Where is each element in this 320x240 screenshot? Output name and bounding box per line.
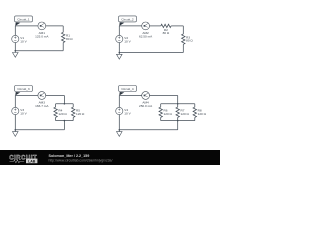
ammeter AM4 needle: [144, 93, 148, 95]
svg-text:120 Ω: 120 Ω: [164, 112, 173, 116]
voltage source V4 body: [116, 107, 123, 114]
footer background bar: [0, 150, 220, 165]
ammeter AM1 pivot blob: [40, 25, 42, 27]
node label box Circuit_3: [15, 86, 33, 92]
svg-text:120 Ω: 120 Ω: [76, 112, 85, 116]
svg-text:Circuit_3: Circuit_3: [17, 87, 29, 91]
CircuitLab logo LAB box: [26, 159, 37, 164]
wire C1 top-right segment: [46, 25, 64, 27]
ammeter AM2 needle: [144, 24, 148, 26]
wire C1 bottom segment: [15, 50, 63, 52]
schematic background: [0, 0, 220, 165]
wire C3 top segment 2: [46, 95, 65, 97]
voltage source V2 body: [116, 35, 123, 42]
resistor R8 zigzag: [193, 107, 196, 117]
ammeter AM1 body: [38, 22, 46, 30]
ground symbol: [13, 132, 19, 137]
voltage source V4 plus sign: [118, 109, 120, 111]
ammeter AM2 body: [142, 22, 150, 30]
ground stub: [14, 130, 16, 132]
voltage source V4 minus sign: [118, 112, 120, 114]
wire C2 top segment 2: [150, 25, 161, 27]
ammeter AM4 lower tick: [144, 95, 147, 97]
wire C1 right-bottom vertical: [62, 43, 64, 51]
wire C4 feed down 2: [177, 121, 179, 130]
wire C3 feed down: [63, 96, 65, 104]
node label box Circuit_2: [119, 16, 137, 22]
junction C3 top rail: [64, 103, 66, 105]
ammeter AM4 body: [142, 92, 150, 100]
node flag pointer (Circuit_3): [15, 92, 20, 96]
wire C2 bottom segment: [119, 52, 183, 54]
ammeter AM2 lower tick: [144, 26, 147, 28]
wire C1 left-bottom vertical: [14, 43, 16, 51]
wire C3 top rail: [56, 103, 74, 105]
ground symbol: [117, 54, 123, 59]
ammeter AM3 needle: [41, 93, 45, 95]
wire C3 R4 top lead: [55, 104, 57, 107]
ammeter AM1 needle: [41, 24, 45, 26]
wire C4 R7 bottom lead: [177, 117, 179, 120]
voltage source V3 plus sign: [14, 109, 16, 111]
svg-text:10 V: 10 V: [124, 112, 131, 116]
wire C3 feed down 2: [63, 121, 65, 130]
wire C1 top-left segment: [15, 25, 38, 27]
resistor R6 zigzag: [159, 107, 162, 117]
ammeter AM1 lower tick: [41, 26, 44, 28]
junction C3 bottom rail: [64, 120, 66, 122]
wire C3 bottom rail: [56, 120, 74, 122]
wire C4 R7 top lead: [177, 104, 179, 107]
ground stub: [118, 53, 120, 55]
CircuitLab logo wire squiggle: [10, 160, 25, 163]
resistor R5 zigzag: [72, 107, 75, 117]
svg-text:80 Ω: 80 Ω: [66, 37, 73, 41]
junction C2 ground node: [119, 52, 121, 54]
resistor R1 zigzag: [62, 32, 65, 42]
svg-text:Circuit_1: Circuit_1: [17, 17, 29, 21]
ground stub: [14, 51, 16, 53]
wire C4 R6 bottom lead: [160, 117, 162, 120]
svg-text:Solomon_Mer / 2.2_159: Solomon_Mer / 2.2_159: [49, 154, 90, 158]
wire C4 feed down: [177, 96, 179, 104]
resistor R2 zigzag: [161, 24, 171, 27]
wire C3 R5 bottom lead: [72, 117, 74, 120]
wire C3 left-top vertical: [14, 96, 16, 108]
voltage source V2 plus sign: [118, 37, 120, 39]
svg-text:120 Ω: 120 Ω: [198, 112, 207, 116]
voltage source V1 body: [12, 35, 19, 42]
node label box Circuit_4: [119, 86, 137, 92]
wire C4 top segment 1: [119, 95, 141, 97]
voltage source V1 minus sign: [14, 40, 16, 42]
wire C4 bottom segment: [119, 129, 177, 131]
wire C4 R8 bottom lead: [194, 117, 196, 120]
wire C4 left-top vertical: [118, 96, 120, 108]
junction C4 bottom rail: [177, 120, 179, 122]
node flag pointer (Circuit_2): [119, 22, 124, 26]
svg-text:10 V: 10 V: [20, 40, 27, 44]
node flag pointer (Circuit_4): [119, 92, 124, 96]
wire C4 top segment 2: [150, 95, 178, 97]
ammeter AM4 pivot blob: [144, 95, 146, 97]
svg-text:166.7 mA: 166.7 mA: [35, 104, 49, 108]
ground symbol: [13, 53, 19, 58]
wire C4 bottom rail: [161, 120, 195, 122]
svg-text:80 Ω: 80 Ω: [186, 39, 193, 43]
svg-text:120 Ω: 120 Ω: [58, 112, 67, 116]
voltage source V3 body: [12, 107, 19, 114]
wire C3 bottom segment: [15, 129, 64, 131]
svg-text:125.0 mA: 125.0 mA: [35, 34, 49, 38]
ammeter AM3 body: [38, 92, 46, 100]
wire C2 left-top vertical: [118, 26, 120, 36]
wire C4 R6 top lead: [160, 104, 162, 107]
wire C2 top segment 3: [171, 25, 183, 27]
svg-text:Circuit_2: Circuit_2: [121, 17, 133, 21]
wire C4 top rail: [161, 103, 195, 105]
resistor R3 zigzag: [182, 34, 185, 44]
svg-text:10 V: 10 V: [20, 112, 27, 116]
voltage source V3 minus sign: [14, 112, 16, 114]
junction C3 ground node: [15, 129, 17, 131]
svg-text:Circuit_4: Circuit_4: [121, 87, 133, 91]
ground stub: [118, 130, 120, 132]
wire C3 top segment 1: [15, 95, 38, 97]
svg-text:10 V: 10 V: [124, 40, 131, 44]
wire C2 right-bottom vertical: [182, 44, 184, 52]
wire C4 left-bottom vertical: [118, 115, 120, 130]
ammeter AM2 pivot blob: [144, 25, 146, 27]
wire C2 left-bottom vertical: [118, 43, 120, 53]
svg-text:80 Ω: 80 Ω: [163, 31, 170, 35]
ammeter AM3 pivot blob: [40, 95, 42, 97]
svg-text:LAB: LAB: [28, 159, 36, 163]
wire C1 right-top vertical: [62, 26, 64, 32]
wire C1 left-top vertical: [14, 26, 16, 36]
voltage source V2 minus sign: [118, 40, 120, 42]
svg-text:250.0 mA: 250.0 mA: [139, 104, 153, 108]
wire C3 R4 bottom lead: [55, 117, 57, 120]
wire C2 top segment 1: [119, 25, 141, 27]
svg-text:62.50 mA: 62.50 mA: [139, 34, 153, 38]
svg-text:http://www.circuitlab.com/c9am: http://www.circuitlab.com/c9amhnjvgrxz3a…: [49, 159, 113, 163]
svg-text:120 Ω: 120 Ω: [181, 112, 190, 116]
junction C4 ground node: [119, 129, 121, 131]
ground symbol: [117, 132, 123, 137]
resistor R4 zigzag: [54, 107, 57, 117]
wire C3 left-bottom vertical: [14, 115, 16, 130]
wire C2 right-top vertical: [182, 26, 184, 34]
voltage source V1 plus sign: [14, 37, 16, 39]
junction C1 ground node: [15, 50, 17, 52]
wire C4 R8 top lead: [194, 104, 196, 107]
junction C4 top rail: [177, 103, 179, 105]
resistor R7 zigzag: [176, 107, 179, 117]
node label box Circuit_1: [15, 16, 33, 22]
node flag pointer (Circuit_1): [15, 22, 20, 26]
ammeter AM3 lower tick: [41, 95, 44, 97]
wire C3 R5 top lead: [72, 104, 74, 107]
